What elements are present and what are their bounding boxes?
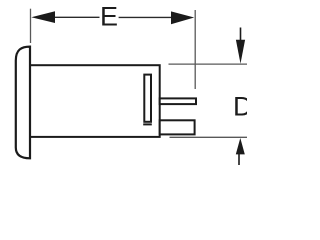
dimension D extension line top (body top) bbox=[169, 63, 248, 65]
dimension E left arrowhead bbox=[31, 11, 55, 23]
dimension D bottom arrowhead bbox=[236, 138, 245, 154]
terminal blade bottom bbox=[160, 120, 195, 134]
dimension E line right segment bbox=[119, 16, 172, 18]
socket body bbox=[30, 65, 160, 137]
dimension E right arrowhead bbox=[171, 11, 194, 24]
svg-text:D: D bbox=[233, 92, 247, 122]
dimension D bottom arrow tail bbox=[238, 154, 240, 166]
dimension D top arrowhead bbox=[236, 40, 245, 64]
rear housing base bar bbox=[143, 123, 152, 125]
dimension D top arrow tail bbox=[240, 28, 242, 42]
terminal blade top bbox=[160, 98, 196, 104]
svg-text:E: E bbox=[100, 2, 118, 32]
rear housing insert bbox=[144, 75, 151, 122]
dimension E extension line right (terminal tips) bbox=[194, 10, 196, 89]
dimension E extension line left (flange back) bbox=[30, 9, 32, 43]
mounting flange (side view) bbox=[16, 47, 30, 159]
dimension D extension line bottom (body bottom) bbox=[170, 136, 248, 138]
dimension E line left segment bbox=[54, 16, 100, 18]
